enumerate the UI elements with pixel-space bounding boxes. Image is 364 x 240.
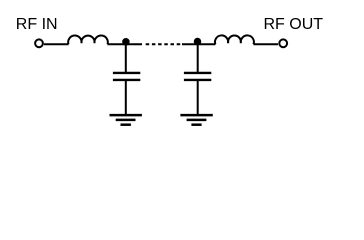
wire: dashed continuation between node A and node B (146, 43, 181, 45)
capacitor C1 (113, 73, 140, 80)
wire: C1 down to ground (125, 80, 127, 115)
inductor L2 (215, 35, 254, 44)
ground (right) (180, 115, 212, 125)
node B (junction dot) (194, 38, 202, 46)
node A (junction dot) (122, 38, 129, 46)
wire: L1 to node A (108, 43, 143, 45)
wire: node A down to C1 (125, 43, 127, 72)
svg-text:RF OUT: RF OUT (264, 16, 324, 33)
terminal RF IN (open circle) (35, 39, 43, 47)
wire: RF IN terminal to L1 (44, 43, 69, 45)
svg-text:RF IN: RF IN (16, 16, 58, 33)
wire: node B to L2 (182, 43, 215, 45)
inductor L1 (68, 35, 108, 44)
ground (left) (110, 115, 142, 125)
wire: C2 down to ground (197, 80, 199, 115)
terminal RF OUT (open circle) (279, 39, 287, 47)
wire: L2 to RF OUT terminal (254, 43, 279, 45)
capacitor C2 (184, 73, 211, 80)
wire: node B down to C2 (197, 43, 199, 72)
